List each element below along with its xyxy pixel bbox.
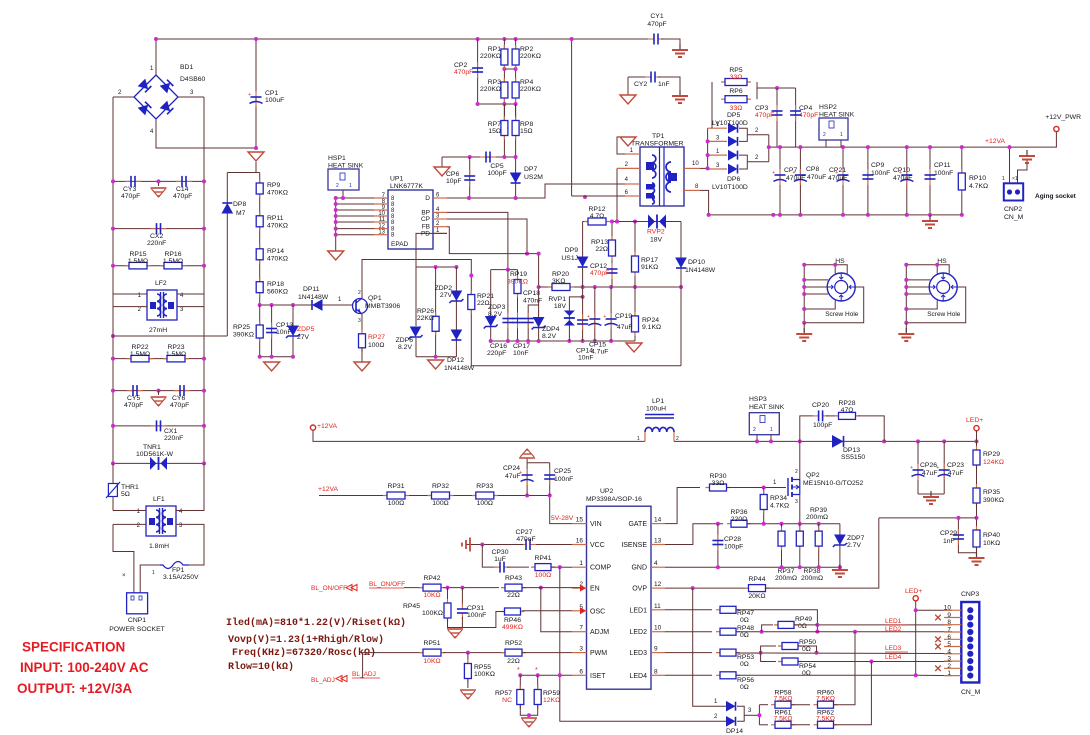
resistor RP22 <box>127 358 153 360</box>
svg-text:ZDP5: ZDP5 <box>297 326 315 333</box>
heat sink HSP2 <box>819 118 848 140</box>
svg-text:RP35: RP35 <box>983 489 1000 496</box>
capacitor CP14 <box>582 314 584 320</box>
wire CP9 col <box>867 147 869 215</box>
svg-text:1.5MΩ: 1.5MΩ <box>128 258 148 265</box>
wire bypass <box>800 416 813 442</box>
svg-text:CX1: CX1 <box>164 428 177 435</box>
capacitor CP11 <box>929 169 931 175</box>
wire DP9 col <box>582 222 584 288</box>
wire QP1 emitter up <box>362 260 471 299</box>
wire CP25 col <box>549 463 551 496</box>
diode DP14b <box>727 717 735 726</box>
svg-text:RP48: RP48 <box>737 625 754 632</box>
svg-text:RP44: RP44 <box>748 576 765 583</box>
wire ZDP6 col <box>415 267 417 326</box>
wire dp14 out <box>744 714 759 716</box>
svg-text:RP4: RP4 <box>520 79 533 86</box>
svg-text:CP1: CP1 <box>265 90 278 97</box>
capacitor CP29 <box>957 529 959 535</box>
svg-text:10pF: 10pF <box>446 178 462 185</box>
svg-text:22KΩ: 22KΩ <box>417 315 434 322</box>
svg-text:100pF: 100pF <box>487 170 506 177</box>
svg-text:0Ω: 0Ω <box>740 617 749 624</box>
svg-text:DP13: DP13 <box>843 447 860 454</box>
ground <box>930 491 932 497</box>
zener ZDP5 <box>288 326 298 335</box>
wire HSP3 stub2 <box>770 435 772 442</box>
svg-text:RP31: RP31 <box>387 483 404 490</box>
svg-text:RP30: RP30 <box>709 473 726 480</box>
ground <box>151 396 167 398</box>
svg-text:D: D <box>425 195 430 202</box>
svg-text:CN_M: CN_M <box>1004 214 1024 221</box>
resistor RP2 <box>515 45 517 69</box>
wire BD1 pin3 <box>178 96 204 98</box>
wire CP net <box>447 219 527 254</box>
resistor RP12 <box>584 221 610 223</box>
wire pwm row2 <box>522 652 572 654</box>
junction RP22 row <box>111 357 115 361</box>
svg-text:PWM: PWM <box>590 650 607 657</box>
svg-text:1.5MΩ: 1.5MΩ <box>130 351 150 358</box>
resistor RP23 <box>163 358 189 360</box>
svg-text:200mΩ: 200mΩ <box>801 575 823 582</box>
wire LF1 p1 <box>113 510 146 512</box>
wire CNP2 wire2 <box>1018 160 1028 183</box>
capacitor CP13 <box>271 323 273 329</box>
diode DP5/DP6 el <box>708 168 727 170</box>
svg-text:0Ω: 0Ω <box>740 684 749 691</box>
wire THR1 col <box>112 463 114 483</box>
svg-text:4: 4 <box>947 648 951 655</box>
wire zdp7 col <box>839 524 841 567</box>
wire CP4 col <box>795 88 797 147</box>
svg-text:1: 1 <box>150 66 154 72</box>
svg-text:100KΩ: 100KΩ <box>422 610 443 617</box>
junction row267 <box>434 265 438 269</box>
svg-text:220pF: 220pF <box>487 350 506 357</box>
wire DP10 down <box>680 287 682 366</box>
wire osc row <box>522 610 572 612</box>
wire ZDP5 column <box>292 305 294 357</box>
svg-text:POWER SOCKET: POWER SOCKET <box>109 626 165 633</box>
svg-text:MMBT3906: MMBT3906 <box>365 303 400 310</box>
wire led3 row <box>665 652 712 654</box>
svg-text:2: 2 <box>118 90 122 96</box>
resistor RP29 <box>976 446 978 469</box>
svg-text:1: 1 <box>947 670 951 677</box>
wire led1 row <box>665 609 712 611</box>
svg-text:1N4148W: 1N4148W <box>444 365 475 372</box>
svg-text:LED4: LED4 <box>885 654 902 661</box>
wire CX2 row <box>113 228 204 230</box>
resistor RP41 <box>531 566 555 568</box>
ground <box>976 552 978 558</box>
wire CY56 gnd stub <box>158 391 160 395</box>
svg-text:BL_ON/OFF: BL_ON/OFF <box>369 581 405 588</box>
wire cp28 col <box>717 524 719 567</box>
ground <box>1026 150 1028 156</box>
svg-text:200mΩ: 200mΩ <box>806 514 828 521</box>
svg-text:3: 3 <box>748 708 752 714</box>
wire SH gnd stub <box>905 323 907 332</box>
underline led1 <box>885 624 908 626</box>
svg-text:CNP2: CNP2 <box>1004 206 1022 213</box>
resistor RP40 <box>976 526 978 551</box>
svg-text:CP21: CP21 <box>829 167 846 174</box>
junction rp5759 join <box>527 713 531 717</box>
svg-text:MP3398A/SOP-16: MP3398A/SOP-16 <box>586 496 642 503</box>
wire SH row2 <box>804 286 827 288</box>
wire rp45 col <box>447 588 449 602</box>
svg-text:11: 11 <box>654 603 661 610</box>
wire SH top <box>906 265 949 274</box>
svg-text:RP11: RP11 <box>267 215 284 222</box>
wire iset row <box>520 674 572 676</box>
junction RP21 top <box>469 274 473 278</box>
svg-text:0Ω: 0Ω <box>802 670 811 677</box>
capacitor CP25 <box>549 469 551 475</box>
transistor QP1 <box>353 299 368 314</box>
wire chain top <box>255 162 257 173</box>
svg-text:CY2: CY2 <box>634 81 647 88</box>
resistor RP14 <box>259 245 261 264</box>
svg-text:RP47: RP47 <box>737 610 754 617</box>
svg-text:EPAD: EPAD <box>391 241 409 248</box>
wire snub row <box>757 87 796 89</box>
svg-text:DP7: DP7 <box>524 166 537 173</box>
wire rp62 out <box>834 662 872 725</box>
resistor RP54 <box>778 661 802 663</box>
svg-text:GND: GND <box>631 565 647 572</box>
wire SH top <box>804 265 847 274</box>
wire CP26 col <box>917 441 919 494</box>
svg-text:15Ω: 15Ω <box>488 128 501 135</box>
svg-text:Screw Hole: Screw Hole <box>927 311 961 318</box>
underline BL <box>369 587 404 589</box>
wire RP13 col <box>611 222 613 288</box>
svg-text:OVP: OVP <box>632 586 647 593</box>
wire UP1 left bus <box>335 198 337 251</box>
ground <box>679 44 681 50</box>
svg-text:4.7KΩ: 4.7KΩ <box>969 183 988 190</box>
wire BD1 pin2 <box>113 96 134 98</box>
svg-text:220KΩ: 220KΩ <box>520 53 541 60</box>
svg-text:1nF: 1nF <box>943 538 955 545</box>
svg-text:8: 8 <box>947 619 951 626</box>
capacitor CP9 <box>867 169 869 175</box>
svg-text:12KΩ: 12KΩ <box>543 697 560 704</box>
svg-text:US1J: US1J <box>561 255 578 262</box>
wire LF1 p3 <box>176 524 204 565</box>
svg-text:1: 1 <box>152 570 155 576</box>
svg-text:LF2: LF2 <box>155 280 167 287</box>
resistor RP30 <box>706 487 731 489</box>
resistor RP26 <box>435 312 437 335</box>
capacitor CP7 <box>779 169 781 175</box>
svg-text:47Ω: 47Ω <box>841 407 854 414</box>
capacitor CP3 <box>776 105 778 111</box>
diode DP11 <box>313 300 322 310</box>
wire row287 <box>539 286 681 288</box>
svg-text:ZDP3: ZDP3 <box>488 304 506 311</box>
svg-text:8: 8 <box>695 184 699 190</box>
wire rp59 col <box>537 675 539 689</box>
wire HSP3 stub1 <box>756 435 758 442</box>
svg-text:1N4148W: 1N4148W <box>298 294 329 301</box>
terminal +12V_PWR <box>1054 126 1059 131</box>
svg-text:CN_M: CN_M <box>961 689 981 696</box>
svg-text:HEAT SINK: HEAT SINK <box>819 112 855 119</box>
capacitor CX1 <box>151 425 157 427</box>
svg-text:*: * <box>535 667 538 674</box>
svg-text:220nF: 220nF <box>164 435 183 442</box>
wire HSP2 stub2 <box>840 140 842 147</box>
junction pwm dot <box>466 651 470 655</box>
junction CX2 row <box>111 227 115 231</box>
wire SH right <box>804 287 864 323</box>
wire SH top2 <box>936 265 938 274</box>
wire rp58 row <box>759 704 768 706</box>
ground <box>620 95 636 104</box>
svg-text:SS5150: SS5150 <box>841 454 865 461</box>
svg-text:RP7: RP7 <box>488 121 501 128</box>
wire DP6 bracket <box>739 155 747 169</box>
svg-text:1: 1 <box>840 132 843 138</box>
svg-text:RP19: RP19 <box>510 271 527 278</box>
svg-text:RP15: RP15 <box>129 251 146 258</box>
junction SH dots <box>802 263 806 267</box>
svg-text:BL_ON/OFF: BL_ON/OFF <box>311 585 347 592</box>
svg-text:CY3: CY3 <box>123 186 136 193</box>
wire led1 row2 <box>736 610 817 632</box>
svg-text:4.7uF: 4.7uF <box>591 349 608 356</box>
svg-text:100Ω: 100Ω <box>477 500 493 507</box>
wire led4 row <box>665 674 712 676</box>
svg-text:RP56: RP56 <box>737 677 754 684</box>
svg-text:DP6: DP6 <box>727 176 740 183</box>
svg-text:13: 13 <box>654 538 662 545</box>
svg-text:1: 1 <box>714 699 718 705</box>
capacitor CP24 <box>526 469 528 475</box>
svg-text:RP24: RP24 <box>642 317 659 324</box>
svg-text:DP11: DP11 <box>303 286 320 293</box>
resistor RP3 <box>503 78 505 102</box>
wire pin1 row <box>916 674 952 676</box>
svg-text:CP3: CP3 <box>755 105 768 112</box>
wire RP21 col <box>470 276 472 366</box>
svg-text:0Ω: 0Ω <box>740 632 749 639</box>
wire DP10 col <box>680 222 682 288</box>
wire RP22 row <box>113 358 204 360</box>
ground <box>469 538 471 552</box>
svg-text:499KΩ: 499KΩ <box>502 624 523 631</box>
svg-text:2: 2 <box>138 307 142 313</box>
svg-text:CP9: CP9 <box>871 162 884 169</box>
junction RP15 row <box>111 264 115 268</box>
junction row287 <box>537 285 541 289</box>
junction gate dot <box>762 486 766 490</box>
svg-text:2: 2 <box>336 183 339 189</box>
junction pin2 dot <box>615 220 619 224</box>
resistor RP36 <box>727 523 751 525</box>
zener ZDP6 <box>411 327 421 336</box>
svg-text:CP11: CP11 <box>934 162 951 169</box>
wire LF2 p4 <box>177 293 204 295</box>
capacitor CP21 <box>842 169 844 175</box>
resistor RP61 <box>771 724 795 726</box>
svg-text:27V: 27V <box>297 334 310 341</box>
inductor LF1 <box>146 506 176 536</box>
svg-text:3: 3 <box>358 318 361 324</box>
svg-text:CP17: CP17 <box>513 343 530 350</box>
svg-text:1: 1 <box>1002 176 1005 182</box>
wire FP1 left <box>140 565 160 593</box>
zener ZDP2 <box>451 291 461 300</box>
svg-text:BD1: BD1 <box>180 64 193 71</box>
wire DP6 out <box>747 161 769 163</box>
svg-text:RP10: RP10 <box>969 175 986 182</box>
svg-text:220nF: 220nF <box>147 240 166 247</box>
wire SH row2 <box>906 286 929 288</box>
capacitor CP19 <box>610 313 612 319</box>
svg-text:7.5KΩ: 7.5KΩ <box>773 716 792 723</box>
capacitor CX2 <box>151 228 157 230</box>
wire CP5 gnd stub <box>441 157 443 167</box>
wire RP5 loop R <box>756 82 758 99</box>
svg-text:TRANSFORMER: TRANSFORMER <box>631 141 684 148</box>
svg-text:LED1: LED1 <box>885 618 902 625</box>
svg-text:200mΩ: 200mΩ <box>775 575 797 582</box>
svg-text:124KΩ: 124KΩ <box>983 459 1004 466</box>
svg-text:LED3: LED3 <box>885 645 902 652</box>
resistor RP56 <box>716 674 740 676</box>
resistor RP13 <box>611 236 613 260</box>
resistor RP42 <box>419 587 445 589</box>
svg-text:+12VA: +12VA <box>985 138 1006 145</box>
wire rail down right <box>571 39 573 196</box>
terminal +12VA <box>310 425 315 430</box>
svg-text:ZDP2: ZDP2 <box>435 285 453 292</box>
wire RP29-35 <box>976 465 978 488</box>
svg-text:7.5KΩ: 7.5KΩ <box>773 696 792 703</box>
wire CNP2 wire1 <box>1009 147 1011 183</box>
wire rp49 out <box>794 624 817 626</box>
svg-text:RP14: RP14 <box>267 248 284 255</box>
capacitor CP27 <box>520 544 526 546</box>
svg-text:+: + <box>910 465 913 471</box>
wire SH gnd stub <box>803 323 805 332</box>
svg-text:100uH: 100uH <box>646 406 666 413</box>
svg-text:CNP3: CNP3 <box>961 591 979 598</box>
svg-text:7.5KΩ: 7.5KΩ <box>816 696 835 703</box>
svg-text:15: 15 <box>576 517 584 524</box>
diode DP13 <box>833 436 843 447</box>
wire ZDP6 col2 <box>415 338 417 357</box>
ground <box>447 628 463 630</box>
svg-text:RP45: RP45 <box>403 603 420 610</box>
wire bot rail 341 <box>491 340 635 342</box>
svg-text:20KΩ: 20KΩ <box>748 593 765 600</box>
svg-text:100nF: 100nF <box>467 612 486 619</box>
wire DP bus <box>707 128 709 169</box>
svg-text:CP16: CP16 <box>490 343 507 350</box>
capacitor CP10 <box>906 169 908 175</box>
wire led+ col <box>916 601 952 610</box>
svg-text:2: 2 <box>753 427 756 433</box>
svg-text:470pF: 470pF <box>454 69 473 76</box>
svg-text:RP26: RP26 <box>417 308 434 315</box>
wire gate net <box>665 488 700 524</box>
wire CP7 col <box>779 147 781 215</box>
wire UP1 pin row <box>336 228 374 230</box>
svg-text:ADJM: ADJM <box>590 629 609 636</box>
resistor RP57 <box>519 686 521 709</box>
wire RP25 column <box>259 305 261 357</box>
svg-text:390KΩ: 390KΩ <box>983 497 1004 504</box>
wire sec rail <box>769 132 1057 148</box>
svg-text:47uF: 47uF <box>922 470 938 477</box>
wire pin10 row <box>700 167 708 169</box>
wire en row <box>404 587 421 589</box>
junction EMI return <box>111 334 115 338</box>
junction ovp node <box>975 516 979 520</box>
capacitor CP6 <box>469 170 471 176</box>
svg-text:10nF: 10nF <box>276 329 292 336</box>
svg-text:10nF: 10nF <box>578 355 594 362</box>
junction bot rail 341 <box>489 339 493 343</box>
svg-text:10: 10 <box>654 625 662 632</box>
svg-text:470KΩ: 470KΩ <box>267 190 288 197</box>
wire row267 <box>416 266 456 268</box>
wire RP19 col2 <box>517 270 519 341</box>
ground <box>839 564 841 570</box>
wire rp41-comp <box>551 566 572 568</box>
svg-text:UP1: UP1 <box>390 176 403 183</box>
svg-text:ISET: ISET <box>590 673 606 680</box>
svg-text:470pF: 470pF <box>799 112 818 119</box>
svg-text:220KΩ: 220KΩ <box>520 86 541 93</box>
resistor RP51 <box>419 652 445 654</box>
wire bypass3 <box>858 416 884 442</box>
wire pwm row <box>443 652 505 654</box>
svg-text:Rlow=10(kΩ): Rlow=10(kΩ) <box>228 661 294 673</box>
ground <box>519 449 535 458</box>
svg-text:THR1: THR1 <box>121 484 139 491</box>
resistor RP18 <box>259 278 261 297</box>
svg-text:7.5KΩ: 7.5KΩ <box>816 716 835 723</box>
zener ZDP4 <box>534 318 544 327</box>
resistor RP58 <box>771 704 795 706</box>
svg-text:3: 3 <box>795 499 798 505</box>
wire left bus <box>112 97 114 463</box>
svg-text:*: * <box>517 667 520 674</box>
svg-text:9: 9 <box>654 646 658 653</box>
wire cp31 col <box>461 588 463 605</box>
wire dp14 bracket <box>737 706 744 721</box>
diode DP5/DP6 el <box>708 154 727 156</box>
diode DP14a <box>727 702 735 711</box>
wire chain top h <box>227 172 259 174</box>
wire col RP7 <box>503 104 505 157</box>
resistor RP43 <box>501 587 526 589</box>
zener ZDP7 <box>835 535 845 544</box>
svg-text:RP13: RP13 <box>591 239 608 246</box>
svg-text:HEAT SINK: HEAT SINK <box>328 163 364 170</box>
svg-text:CP25: CP25 <box>554 468 571 475</box>
svg-text:7: 7 <box>579 625 583 632</box>
